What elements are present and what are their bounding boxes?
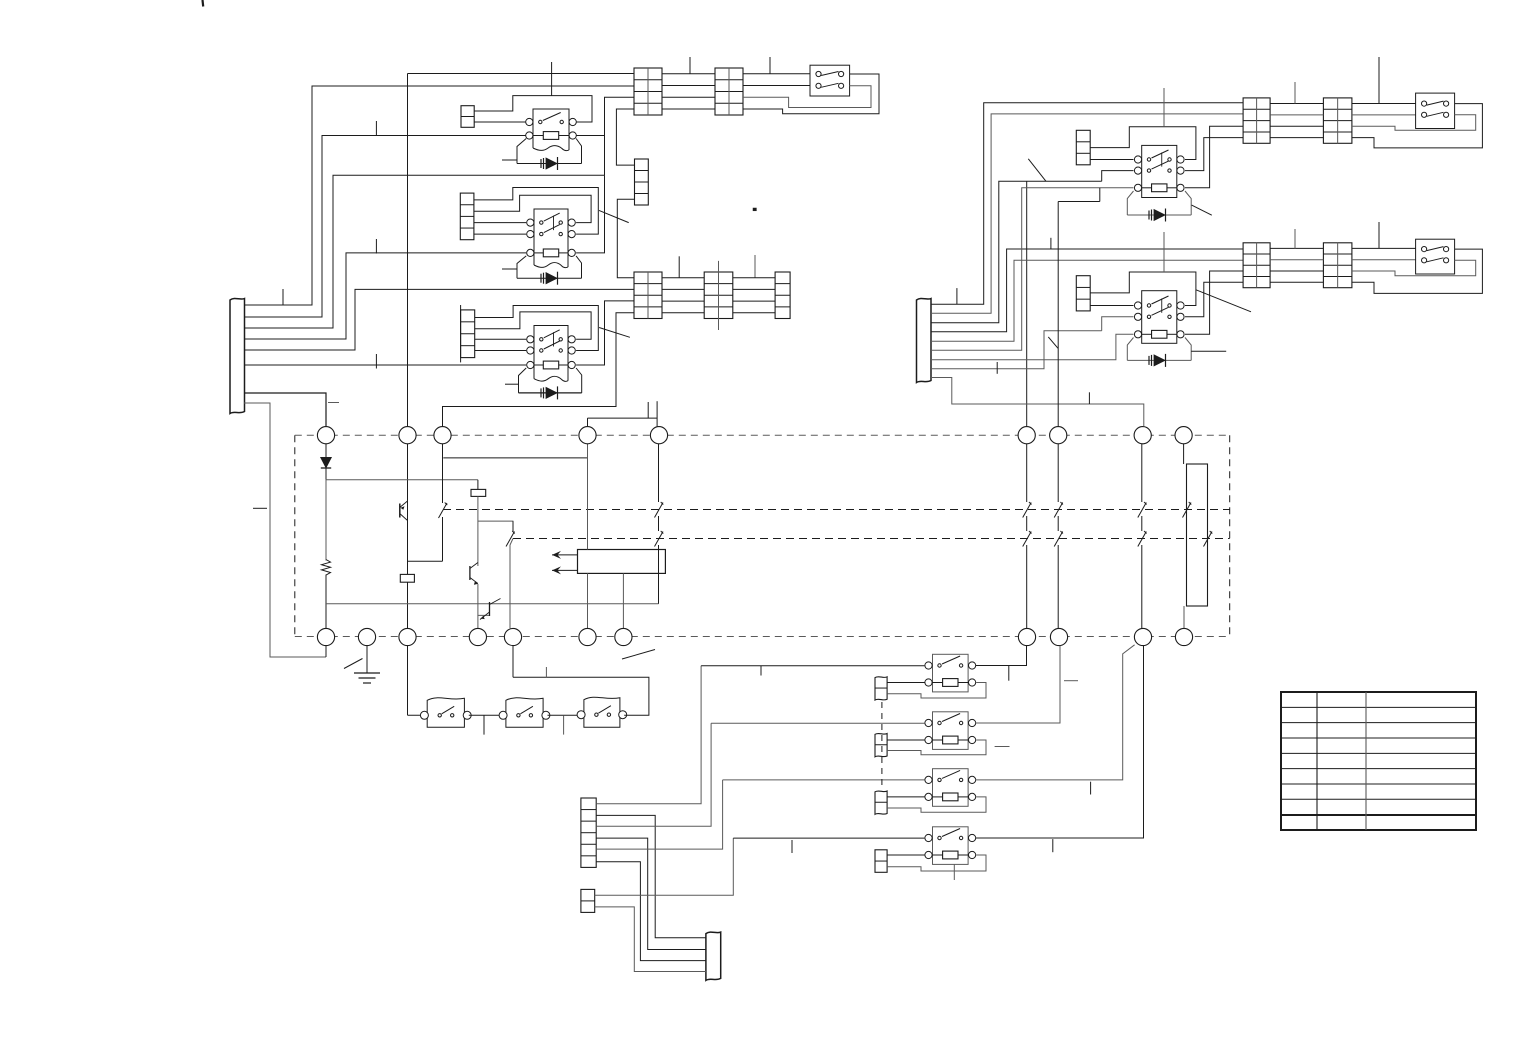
tick near P16 drop <box>1064 680 1078 682</box>
wire K1 coil right to CB1 row3 <box>576 97 634 175</box>
connector block CBR1a <box>1243 98 1270 143</box>
tick above CBR1 <box>1294 82 1296 104</box>
switch on P9 rail2 <box>1138 531 1147 547</box>
wire K3 right loop <box>576 368 582 393</box>
node bus (top pin) <box>399 427 416 444</box>
wire CNS3 to KS3 coil <box>887 796 924 798</box>
wire CNS2 to KS2 coil <box>887 739 924 741</box>
wire ground branch <box>326 603 659 605</box>
wire SB3 return to P12 <box>513 646 649 716</box>
switch SB3 <box>577 697 627 727</box>
connector CN12 (relay K2 input) <box>460 193 474 240</box>
table (legend, empty) <box>1281 692 1476 830</box>
wire KR2 diode link <box>1127 359 1191 361</box>
wire CN13-3 to K3 contact1 left <box>475 338 527 340</box>
wire CNR1-2 loop to KR1 contact1 right <box>1090 127 1196 160</box>
wire CB1 row3 link <box>662 96 715 98</box>
wire K3 coil right to CB2 row3 <box>576 301 634 365</box>
wire CBR1b row1 to SWR1 <box>1352 103 1416 105</box>
leader on P8 riser <box>1048 337 1058 348</box>
wire KR2 left loop <box>1127 338 1133 361</box>
wire P6 riser <box>656 401 658 426</box>
node P18 (bottom pin) <box>1175 628 1192 645</box>
wire CBR2b row2 to SWR2 <box>1352 259 1416 261</box>
wire CB1b row2 to SW1 <box>743 85 810 87</box>
tick above CB1b <box>769 57 771 74</box>
switch on P8 rail2 <box>1054 531 1063 547</box>
wire K3 left loop <box>519 368 527 393</box>
switch S3 on P6 <box>655 502 664 518</box>
relay KR1 <box>1134 145 1184 197</box>
relay KS4 <box>925 827 976 865</box>
connector block CBR1b <box>1323 98 1352 143</box>
wire CNR2-2 loop to KR2 contact1 right <box>1090 272 1196 306</box>
node P17 (bottom pin) <box>1134 628 1151 645</box>
wire P7 riser <box>1026 181 1028 426</box>
wire CN13-4 to K3 contact2 left <box>475 350 527 352</box>
tick label stub a <box>375 121 377 136</box>
relay KS3 <box>925 769 976 807</box>
component R3 <box>471 489 486 496</box>
wire CB1 row4 to CN14 <box>616 109 634 165</box>
wire CBR2 row4 link <box>1270 281 1323 283</box>
switch S2 on P5 <box>506 531 515 547</box>
tick below SB2 <box>563 715 565 734</box>
wire K2 left loop <box>517 256 526 278</box>
wire P7 vertical upper <box>1026 444 1028 502</box>
resistor R1 <box>322 560 331 576</box>
tick KR1 coil stub <box>1099 188 1101 202</box>
wire SWR2 return outer <box>1352 249 1483 293</box>
wire CN11-1 loop to K1 contact right <box>474 96 592 122</box>
node P7 (top pin) <box>1018 427 1035 444</box>
tick above KR1 <box>1163 88 1165 127</box>
wire SWR1 return inner <box>1352 115 1476 130</box>
leader KR2 <box>1196 290 1251 312</box>
diode D1 <box>541 157 558 170</box>
tick near P15 drop <box>1008 666 1010 681</box>
diode D6 <box>1149 354 1166 367</box>
relay K3 <box>527 326 576 382</box>
connector CN21 (6-pin) <box>581 798 596 867</box>
switch SWR2 <box>1416 239 1455 274</box>
wire P8 vertical upper <box>1057 444 1059 502</box>
wire KR1 right loop <box>1185 191 1191 215</box>
wire CN12-2 loop to K2 contact1 right <box>474 195 591 222</box>
wire CBR1b row2 to SWR1 <box>1352 114 1416 116</box>
connector block CB2b <box>704 272 733 319</box>
diode D2 <box>541 272 558 285</box>
node P6 (top pin) <box>650 427 667 444</box>
wire CB2 row4 link <box>662 312 775 314</box>
tick K3 tail <box>505 383 519 385</box>
wire CB1 row2 link <box>662 85 715 87</box>
connector block CB1b <box>715 68 743 115</box>
wire P6 mid <box>658 516 660 531</box>
wire KS2 to P16 <box>976 646 1060 723</box>
connector J101 (left harness bar) <box>230 299 245 414</box>
wire J101-8 to node P10 <box>244 403 326 657</box>
wire CNR2-3 to KR2 contact1 left <box>1090 305 1133 307</box>
dashed box left edge <box>294 435 296 636</box>
wire J101-3 to K2 coil right riser <box>244 175 605 328</box>
switch on P7 rail1 <box>1023 502 1032 518</box>
tick on KS4 wire <box>791 840 793 853</box>
wire P9 vertical upper <box>1141 444 1143 502</box>
wire CB2 row1 link <box>662 277 775 279</box>
wire P7 vertical mid <box>1026 516 1028 531</box>
wire Q2 down <box>478 584 490 615</box>
wire D4 to rail <box>325 468 327 480</box>
switch on RL1 left edge <box>1183 502 1192 518</box>
wire K2 diode link <box>517 277 582 279</box>
node P4 (top pin) <box>579 427 596 444</box>
wire K2 right loop <box>576 256 581 278</box>
wire K1 left loop <box>517 139 526 164</box>
tick near KS2 <box>995 746 1010 748</box>
wire KS1 coil loop <box>887 683 986 699</box>
connector block CB1a <box>634 68 662 115</box>
wire J103-3 to KR1 contact2 <box>931 171 1134 323</box>
connector CNR2 (3-pin) <box>1076 276 1090 311</box>
switch S4 on P6 <box>655 531 664 547</box>
wire CN21-4 to J102 <box>596 838 706 949</box>
dashed box bottom edge <box>295 636 1230 638</box>
wire P1 vertical <box>325 480 327 561</box>
wire KS2 coil loop <box>887 740 986 755</box>
node GNDp (bottom pin) <box>358 628 375 645</box>
tick above return wire <box>545 667 547 677</box>
leader at P13 <box>622 650 655 660</box>
wire P6 lower <box>658 545 660 604</box>
connector block CB2a <box>634 272 662 319</box>
wire CN21-1 riser to KS1 <box>596 666 924 804</box>
wire Q2 to P11 <box>477 615 479 628</box>
switch on P9 rail1 <box>1138 502 1147 518</box>
leader KR1 <box>1192 205 1212 215</box>
wire KS3 coil loop <box>887 797 986 812</box>
wire CN11-2 to K1 contact left <box>474 121 526 123</box>
wire main vertical bus <box>407 74 409 716</box>
tick on CBR2 feed <box>1050 238 1052 249</box>
wire KS4 to P17b <box>976 646 1144 838</box>
wire P1 branch horizontal <box>326 479 478 481</box>
ground GND1 <box>354 646 380 683</box>
tick on KS1 wire <box>760 666 762 676</box>
wire CB2a row4 to node P3 <box>443 313 635 427</box>
node P16 (bottom pin) <box>1050 628 1067 645</box>
wire CB1 row1 link <box>662 73 715 75</box>
wire link P2-P4 <box>443 457 587 459</box>
tick on P9 wire <box>1088 392 1090 404</box>
wire KS3 to P17 <box>976 645 1135 780</box>
transistor Q1 <box>400 501 408 521</box>
switch on RL1 right edge <box>1204 531 1213 547</box>
node P14 (top pin) <box>1175 427 1192 444</box>
relay KS1 <box>925 654 976 692</box>
wire CN22-1 riser to KS4 <box>595 838 925 895</box>
IC U1 (driver) <box>578 550 666 574</box>
wire node P2 drop <box>442 444 444 503</box>
wire node P1 drop <box>325 444 327 457</box>
wire P9 vertical lower <box>1141 545 1143 628</box>
wire CN21-3 riser to KS2 <box>596 723 924 826</box>
node P8 (top pin) <box>1050 427 1067 444</box>
wire CB2 row3 link <box>662 300 775 302</box>
wire CBR2b row1 to SWR2 <box>1352 247 1416 249</box>
node P3 (top pin) <box>434 427 451 444</box>
diode D4 (LED) <box>321 458 331 469</box>
wire CN12-4 to K2 contact2 left <box>474 233 526 235</box>
dashed box top edge <box>295 434 1230 436</box>
wire KS1 to P15 <box>976 646 1027 666</box>
wire J103-1 to CBR1 row1 <box>931 103 1243 304</box>
node P1 (top pin) <box>317 427 334 444</box>
dashed box right edge <box>1229 435 1231 636</box>
connector CNR1 (3-pin) <box>1076 130 1090 165</box>
wire J103-7 to KR2 coil <box>931 334 1134 359</box>
wire SW1 return inner <box>743 86 871 108</box>
connector CNS2 <box>875 733 887 756</box>
wire SW1 return outer <box>743 74 879 114</box>
wire J101-4 to K2 coil left <box>244 253 526 339</box>
switch SW1 <box>810 65 850 96</box>
wire CBR2 row2 link <box>1270 259 1323 261</box>
relay K2 <box>527 209 576 268</box>
connector block CBR2b <box>1323 243 1352 288</box>
wire CN14-4 to CB2 row1 <box>617 199 634 277</box>
tick K1 tail <box>502 159 517 161</box>
connector block CBR2a <box>1243 243 1270 288</box>
switch SB1 <box>420 698 471 728</box>
tick K2 tail <box>502 268 517 270</box>
switch on P8 rail1 <box>1054 502 1063 518</box>
wire J103-5 to CBR2 row2 <box>931 260 1243 341</box>
wire U1 to P12 <box>587 573 589 628</box>
transistor Q2 <box>470 563 478 585</box>
dashed rail 2 <box>513 538 1230 540</box>
wire CN21-2 to J102 <box>596 815 706 937</box>
wire KR1 coil right to CBR1 row3 <box>1185 126 1243 188</box>
wire P7 vertical lower <box>1026 545 1028 628</box>
relay KS2 <box>925 712 976 750</box>
tick at J101 top <box>282 289 284 305</box>
node P12 (bottom pin) <box>504 628 521 645</box>
connector J103 (right harness bar) <box>917 299 932 383</box>
wire KR2 right loop <box>1185 338 1191 361</box>
tick below J103 wires <box>996 362 998 374</box>
connector CN14 (4-pin) <box>635 159 649 205</box>
wire R3 top <box>477 480 479 490</box>
wire P14 stub <box>1183 444 1185 464</box>
relay KR2 <box>1134 291 1184 344</box>
wire P2 lower <box>442 517 444 561</box>
wire P4 to U1 <box>587 444 589 550</box>
switch on P7 rail2 <box>1023 531 1032 547</box>
wire P8 vertical mid <box>1057 516 1059 531</box>
node P10 (bottom pin) <box>317 628 334 645</box>
wire R3 down <box>478 496 514 566</box>
wire SWR2 return inner <box>1352 260 1476 275</box>
wire P5 lower <box>510 539 513 629</box>
arrow U1 out1 <box>552 551 578 559</box>
connector J102 (bottom bar) <box>706 932 721 980</box>
wire CBR1 row2 link <box>1270 114 1323 116</box>
wire K1 diode link <box>517 163 582 165</box>
wire P6 link <box>588 418 658 444</box>
tick above K1 <box>551 62 553 96</box>
wire CB1 row4 link <box>662 108 715 110</box>
connector CN11 (relay K1 input) <box>461 106 474 128</box>
tick near KS4 wire <box>1052 839 1054 852</box>
tick below SB1 <box>483 715 485 734</box>
node P13b (bottom pin) <box>615 628 632 645</box>
diode D3 <box>541 386 558 399</box>
wire bus to SB1 <box>408 714 425 716</box>
tick near node P1 <box>328 402 339 404</box>
wire top bus to CB1 row1 <box>408 73 635 75</box>
wire CBR2 row3 link <box>1270 270 1323 272</box>
wire CBR1 row3 link <box>1270 125 1323 127</box>
component RL1 (ballast) <box>1187 464 1208 606</box>
arrow U1 out2 <box>552 566 578 574</box>
wire KR1 diode link <box>1127 214 1191 216</box>
wire CNS4 to KS4 coil <box>887 854 924 856</box>
tick above CBR2b <box>1378 222 1380 248</box>
wire CB1b row1 to SW1 <box>743 73 810 75</box>
wire CNR1-3 to KR1 contact1 left <box>1090 159 1133 161</box>
wire K3 diode link <box>519 392 582 394</box>
wire CBR2 row1 link <box>1270 247 1323 249</box>
wire J103-4 to CBR2 row1 <box>931 249 1243 332</box>
stray mark top edge <box>201 0 204 7</box>
node P15 (bottom pin) <box>1018 628 1035 645</box>
switch SB2 <box>499 698 550 728</box>
wire R1 to P10 <box>325 575 327 629</box>
wire SB1-SB2 <box>469 714 503 716</box>
connector block CB2c <box>775 272 790 319</box>
wire CN12-3 to K2 contact1 left <box>474 222 526 224</box>
tick KR2 tail <box>1191 350 1226 352</box>
wire CB2 row2 link <box>662 288 775 290</box>
wire CN22-2 to J102 <box>595 907 706 972</box>
wire P9 vertical mid <box>1141 516 1143 531</box>
wire CBR1 row4 link <box>1270 137 1323 139</box>
wire J101-6 to K3 coil left <box>244 364 526 366</box>
wire SWR1 return outer <box>1352 104 1483 148</box>
wire U1 to P13 <box>622 573 624 628</box>
tick above KR2 <box>1163 232 1165 272</box>
tick right of K2 <box>678 256 680 278</box>
component R2 on bus <box>400 574 414 582</box>
wire P6 drop <box>658 444 660 502</box>
node busb (bottom pin) <box>399 628 416 645</box>
switch S1 on P2 <box>439 503 448 519</box>
dashed link CNS1-CNS3 <box>881 702 883 789</box>
connector CNS1 <box>875 677 887 700</box>
wire SB2-SB3 <box>548 714 582 716</box>
wire CNS1 to KS1 coil <box>887 682 924 684</box>
leader K3 <box>599 328 630 338</box>
leader at GND1 <box>344 659 363 669</box>
tick above J103 <box>956 288 958 304</box>
wire node P10 stub <box>325 646 327 657</box>
connector CNS3 <box>875 791 887 814</box>
connector CN13 (relay K3 input) <box>461 305 475 362</box>
node P13 (bottom pin) <box>579 628 596 645</box>
wire KR1 contact2 to CBR1 row4 <box>1185 138 1243 171</box>
wire CN13-1 loop to K3 contact2 right <box>475 306 599 351</box>
wire P5 drop <box>512 521 514 532</box>
tick below KS4 <box>953 864 955 880</box>
wire CBR1 row1 link <box>1270 103 1323 105</box>
wire P2 to bus <box>408 560 443 562</box>
tick right of K2 b <box>754 255 756 278</box>
node P9 (top pin) <box>1134 427 1151 444</box>
wire P8 vertical lower <box>1057 545 1059 628</box>
connector CN22 (2-pin) <box>581 889 595 912</box>
wire CN21-5 riser to KS3 <box>596 780 924 849</box>
tick outside box left <box>253 507 267 509</box>
wire J103-9 to P9 <box>931 378 1144 427</box>
connector CNS4 <box>875 850 887 873</box>
tick on P6 link <box>647 402 649 418</box>
node P11 (bottom pin) <box>469 628 486 645</box>
leader KR1 input <box>1028 159 1046 182</box>
wire CN21-6 to J102 <box>596 862 706 961</box>
tick near KS3 wire <box>1090 782 1092 795</box>
leader K2 <box>599 210 629 222</box>
wire J101-5 to CB2 row2 <box>244 289 634 350</box>
switch SWR1 <box>1416 93 1455 128</box>
wire K1 right loop <box>576 139 581 164</box>
wire J101-1 to CB1 row2 <box>244 86 634 305</box>
wire RL1 to P18 <box>1183 606 1185 628</box>
wire J103-6 to KR1 coil <box>931 188 1134 350</box>
tick above CBR2 <box>1294 229 1296 248</box>
tick above CBR1b <box>1378 57 1380 104</box>
wire J103-8 to KR2 contact2 <box>931 317 1134 369</box>
wire KR2 coil right to CBR2 row3 <box>1185 271 1243 334</box>
tick label stub c <box>375 354 377 369</box>
tick above CB1 link <box>689 57 691 74</box>
wire CN12-1 loop to K2 contact2 right <box>474 188 598 235</box>
wire KR1 left loop <box>1127 191 1133 215</box>
wire K2 coil right riser <box>576 175 604 253</box>
relay K1 <box>526 109 577 151</box>
wire J101-2 to K1 coil left <box>244 136 526 318</box>
transistor Q3 <box>480 599 501 620</box>
stray dot <box>753 208 756 211</box>
tick label stub b <box>375 239 377 254</box>
wire J103-2 to CBR1 row2 <box>931 114 1243 313</box>
wire CN13-2 loop to K3 contact1 right <box>475 312 591 339</box>
wire J101-7 to node P1 <box>244 393 326 427</box>
wire crossing CB2b <box>718 261 720 330</box>
dashed rail 1 <box>443 509 1230 511</box>
wire P8 riser <box>1058 202 1100 427</box>
wire KS4 coil loop <box>887 855 986 871</box>
diode D5 <box>1149 209 1166 222</box>
wire KR2 contact2 to CBR2 row4 <box>1185 282 1243 317</box>
